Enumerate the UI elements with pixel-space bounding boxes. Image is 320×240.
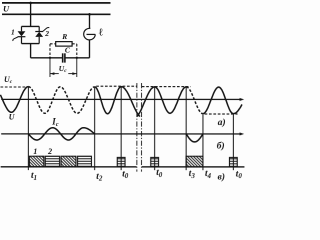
svg-text:а): а) (218, 117, 226, 128)
svg-text:б): б) (217, 140, 225, 151)
svg-text:1: 1 (11, 28, 15, 37)
svg-text:2: 2 (47, 147, 52, 156)
svg-text:в): в) (218, 172, 225, 183)
svg-text:R: R (61, 32, 67, 41)
svg-text:1: 1 (33, 147, 37, 156)
svg-text:ℓ: ℓ (98, 28, 103, 39)
svg-text:U: U (3, 4, 10, 14)
svg-text:2: 2 (44, 29, 49, 38)
